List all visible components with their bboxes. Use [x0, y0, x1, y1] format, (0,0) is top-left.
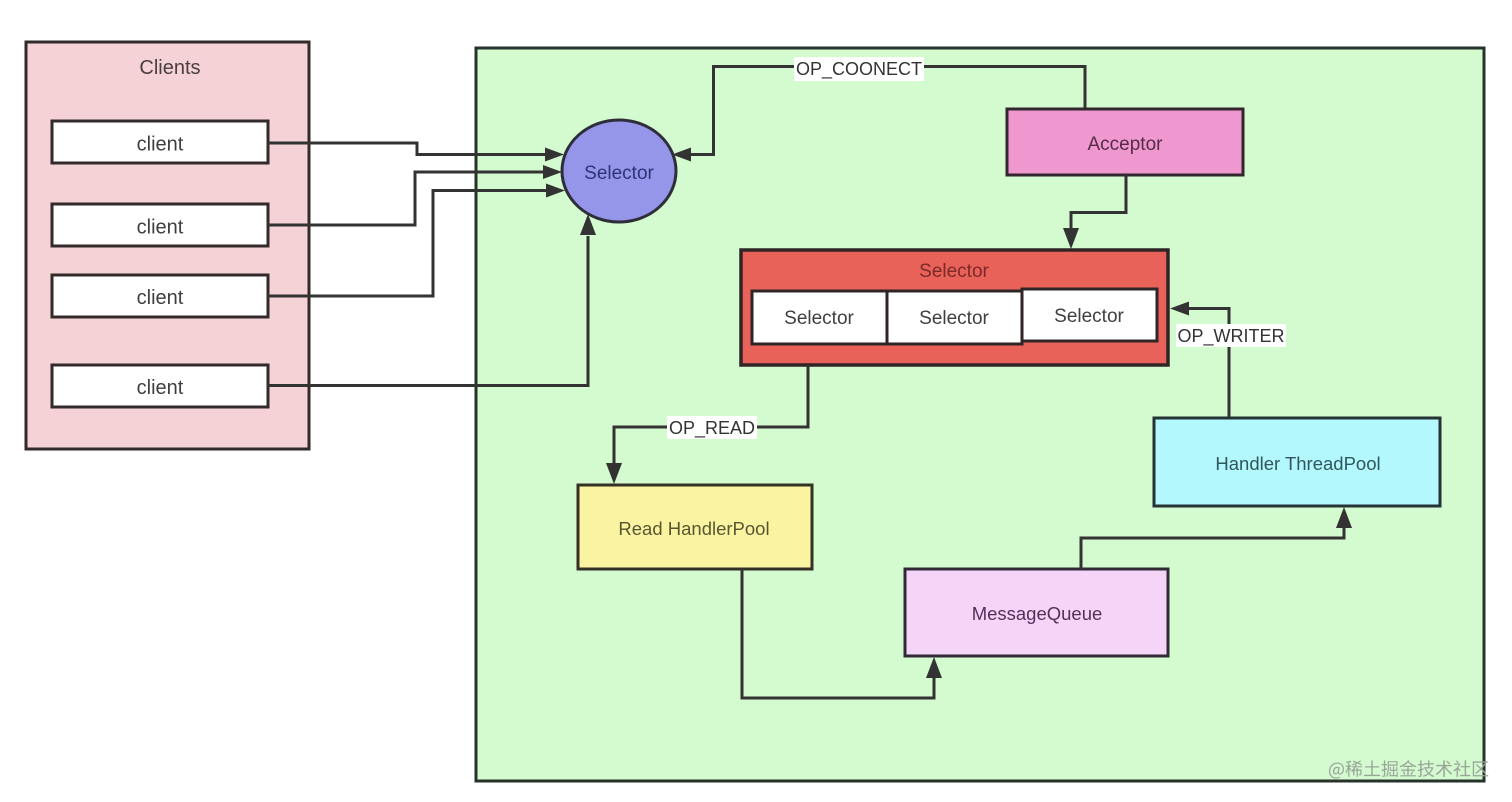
svg-text:Selector: Selector — [1054, 306, 1124, 327]
container Reactor (green) — [476, 48, 1484, 781]
svg-text:Selector: Selector — [919, 308, 989, 329]
arrowhead OP_WRITER left into red box — [1170, 302, 1189, 316]
svg-text:client: client — [137, 134, 184, 156]
box inner Selector A — [752, 291, 887, 344]
svg-text:client: client — [137, 287, 184, 309]
watermark juejin community — [1329, 760, 1488, 778]
label OP_WRITER — [1176, 324, 1286, 347]
ellipse Selector — [562, 120, 676, 222]
svg-text:client: client — [137, 217, 184, 239]
wire OP_WRITER from HandlerThreadPool to Selector pool — [1189, 309, 1229, 419]
wire client4 to Selector ellipse bottom — [268, 236, 588, 386]
arrowhead OP_READ down into yellow box — [606, 463, 622, 484]
box client 4 — [52, 365, 268, 407]
svg-text:Selector: Selector — [584, 163, 654, 184]
arrowhead up into Handler ThreadPool — [1336, 507, 1352, 528]
svg-text:Handler ThreadPool: Handler ThreadPool — [1215, 453, 1380, 474]
box inner Selector C — [1022, 289, 1157, 341]
label OP_COONECT — [794, 57, 924, 81]
svg-text:Clients: Clients — [139, 57, 200, 79]
box client 2 — [52, 204, 268, 246]
container Clients — [26, 42, 309, 449]
box client 3 — [52, 275, 268, 317]
arrowhead client1 — [545, 148, 564, 162]
svg-text:Read HandlerPool: Read HandlerPool — [618, 518, 769, 539]
arrowhead client2 — [543, 165, 562, 179]
svg-text:Selector: Selector — [784, 308, 854, 329]
box inner Selector B — [887, 291, 1022, 344]
arrowhead client4 up — [580, 214, 596, 235]
wire OP_READ from Selector pool to Read HandlerPool — [614, 365, 808, 464]
wire client1 to Selector ellipse — [268, 143, 546, 155]
arrowhead into Selector pool top — [1063, 228, 1079, 249]
container Selector pool (red) — [741, 250, 1168, 365]
svg-text:Acceptor: Acceptor — [1088, 134, 1164, 155]
label OP_READ — [667, 416, 757, 439]
svg-text:OP_COONECT: OP_COONECT — [796, 59, 922, 80]
svg-text:MessageQueue: MessageQueue — [972, 603, 1103, 624]
wire MessageQueue to Handler ThreadPool — [1081, 528, 1344, 569]
arrowhead OP_COONECT left into ellipse — [672, 148, 691, 162]
wire Read HandlerPool to MessageQueue — [742, 569, 934, 698]
svg-text:client: client — [137, 377, 184, 399]
wire client3 to Selector ellipse — [268, 191, 547, 297]
wire Acceptor to Selector pool — [1071, 175, 1126, 229]
box client 1 — [52, 121, 268, 163]
svg-text:Selector: Selector — [919, 261, 989, 282]
wire OP_COONECT from Acceptor top to Selector ellipse — [690, 67, 1085, 155]
box Acceptor — [1007, 109, 1243, 175]
arrowhead client3 — [546, 184, 565, 198]
arrowhead up into MessageQueue — [926, 657, 942, 678]
box MessageQueue — [905, 569, 1168, 656]
wire client2 to Selector ellipse — [268, 172, 544, 225]
svg-text:OP_WRITER: OP_WRITER — [1177, 326, 1284, 347]
svg-text:OP_READ: OP_READ — [669, 418, 755, 439]
box Read HandlerPool (yellow) — [578, 485, 812, 569]
box Handler ThreadPool (cyan) — [1154, 418, 1440, 506]
